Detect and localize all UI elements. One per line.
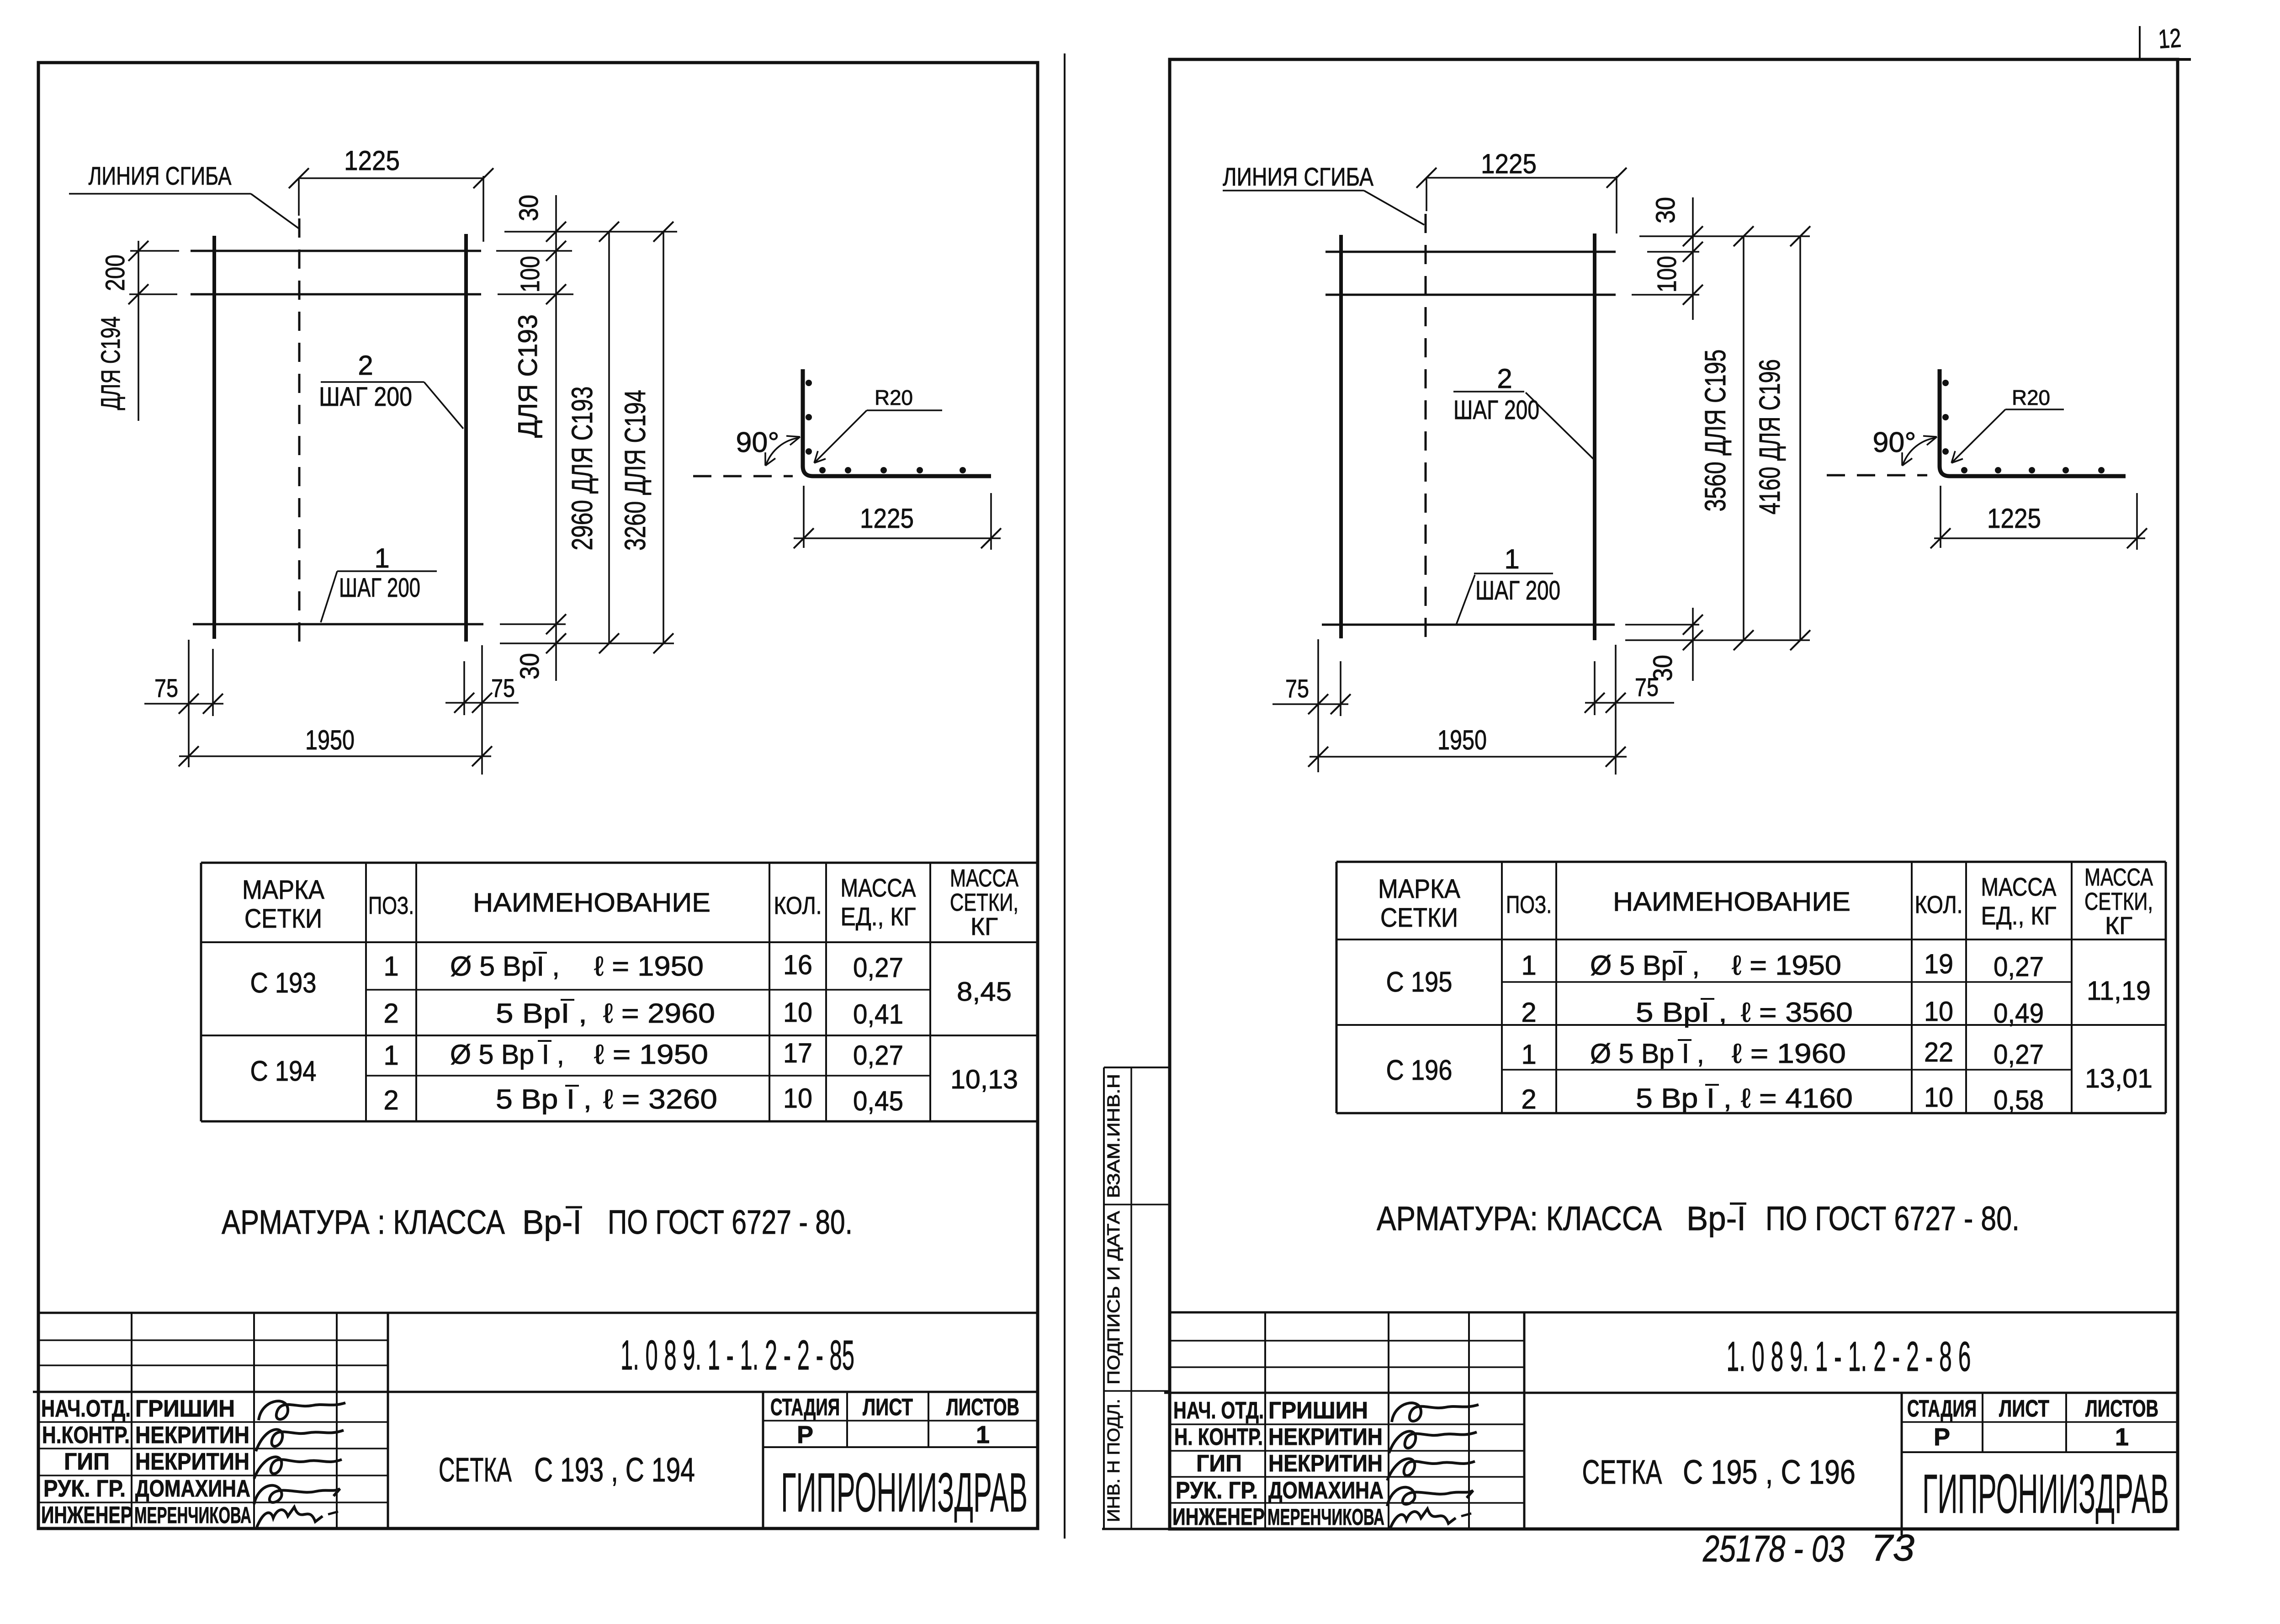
svg-text:30: 30 <box>1651 197 1681 223</box>
svg-text:90°: 90° <box>1873 427 1916 458</box>
svg-text:ℓ = 1950: ℓ = 1950 <box>1732 950 1841 981</box>
svg-text:2: 2 <box>383 1085 398 1115</box>
svg-text:СЕТКИ,: СЕТКИ, <box>950 889 1018 916</box>
svg-text:ℓ = 1950: ℓ = 1950 <box>594 1039 708 1070</box>
svg-text:ℓ = 3260: ℓ = 3260 <box>603 1084 717 1115</box>
svg-text:ЕД., КГ: ЕД., КГ <box>841 902 916 931</box>
mesh cross wire bottom <box>193 623 483 626</box>
title block (right sheet) <box>1170 1311 2178 1314</box>
svg-text:2: 2 <box>358 350 373 381</box>
svg-text:ПОЗ.: ПОЗ. <box>1506 891 1552 918</box>
svg-text:ℓ = 1950: ℓ = 1950 <box>594 951 704 982</box>
signature (Домахина) <box>254 1486 340 1504</box>
svg-text:1: 1 <box>374 543 389 573</box>
svg-text:Ø 5 ВрI ,: Ø 5 ВрI , <box>1590 950 1700 981</box>
svg-text:С 196: С 196 <box>1386 1055 1453 1086</box>
svg-text:75: 75 <box>1635 673 1659 701</box>
fold line (dashed) <box>298 218 301 642</box>
90 degree arc with arrows (right) <box>1903 438 1936 464</box>
svg-text:10: 10 <box>783 1083 812 1114</box>
svg-text:75: 75 <box>491 674 515 702</box>
svg-text:3560 ДЛЯ С195: 3560 ДЛЯ С195 <box>1699 350 1732 512</box>
mesh cross wire top 1 <box>191 250 481 252</box>
extension line mesh right edge (bottom) <box>481 645 483 775</box>
svg-text:17: 17 <box>783 1038 812 1068</box>
extension line mesh left edge (bottom) <box>188 640 190 767</box>
svg-text:10: 10 <box>1924 1082 1953 1113</box>
table frame (right sheet) <box>1336 861 2166 863</box>
mesh cross wire top 2 (right sheet) <box>1326 294 1616 296</box>
svg-text:5 ВрI ,: 5 ВрI , <box>1636 997 1727 1028</box>
svg-text:75: 75 <box>1285 674 1309 703</box>
svg-text:100: 100 <box>1652 256 1682 292</box>
extension line mesh top edge (right) <box>504 231 677 233</box>
svg-text:Вр-I: Вр-I <box>522 1203 582 1241</box>
svg-text:ИНВ. Н ПОДЛ.: ИНВ. Н ПОДЛ. <box>1104 1399 1124 1522</box>
svg-text:1950: 1950 <box>1437 725 1487 755</box>
svg-text:200: 200 <box>101 255 130 291</box>
svg-text:0,58: 0,58 <box>1994 1085 2044 1115</box>
sidebar box column <box>1103 1067 1105 1529</box>
svg-text:8,45: 8,45 <box>957 977 1012 1007</box>
svg-text:ЛИСТОВ: ЛИСТОВ <box>946 1394 1019 1421</box>
dimension 75 bottom left (right sheet) <box>1317 639 1319 772</box>
svg-text:ГИПРОНИИЗДРАВ: ГИПРОНИИЗДРАВ <box>1922 1463 2169 1525</box>
svg-text:90°: 90° <box>736 427 779 458</box>
svg-text:СЕТКИ: СЕТКИ <box>244 904 322 934</box>
cross-wire dots on horizontal leg <box>819 467 826 473</box>
svg-text:ПОЗ.: ПОЗ. <box>368 892 414 919</box>
svg-text:0,27: 0,27 <box>1994 951 2044 982</box>
svg-text:ЛИСТОВ: ЛИСТОВ <box>2085 1396 2158 1422</box>
svg-text:ПО ГОСТ 6727 - 80.: ПО ГОСТ 6727 - 80. <box>608 1203 853 1241</box>
svg-text:0,27: 0,27 <box>853 1040 903 1071</box>
svg-text:2: 2 <box>1521 997 1536 1028</box>
svg-text:Вр-I: Вр-I <box>1686 1199 1746 1237</box>
svg-text:1. 0 8 9. 1 - 1. 2 - 2 - 8 6: 1. 0 8 9. 1 - 1. 2 - 2 - 8 6 <box>1727 1333 1971 1380</box>
extension line wire1 (right) <box>496 250 572 252</box>
cross-wire dots horizontal leg (right) <box>1961 467 1967 473</box>
svg-text:ГРИШИН: ГРИШИН <box>1268 1397 1368 1424</box>
svg-text:12: 12 <box>2157 23 2182 54</box>
svg-text:ДЛЯ С194: ДЛЯ С194 <box>96 317 126 410</box>
svg-text:1: 1 <box>1521 1039 1536 1070</box>
dimension 75 (bottom right) <box>445 702 519 704</box>
svg-text:ДЛЯ С193: ДЛЯ С193 <box>513 314 543 438</box>
svg-text:1: 1 <box>2115 1423 2129 1451</box>
svg-text:0,27: 0,27 <box>853 952 903 983</box>
svg-text:0,27: 0,27 <box>1994 1039 2044 1070</box>
svg-text:ШАГ 200: ШАГ 200 <box>1453 395 1539 425</box>
svg-text:0,49: 0,49 <box>1994 998 2044 1029</box>
svg-text:НЕКРИТИН: НЕКРИТИН <box>135 1449 249 1475</box>
svg-text:100: 100 <box>515 256 545 292</box>
svg-text:ИНЖЕНЕР: ИНЖЕНЕР <box>41 1502 133 1528</box>
svg-text:3260 ДЛЯ С194: 3260 ДЛЯ С194 <box>619 390 652 551</box>
svg-text:1: 1 <box>1504 544 1519 574</box>
svg-text:Р: Р <box>797 1421 813 1449</box>
dimension line 3560 for C195 <box>1743 236 1744 640</box>
svg-text:5 ВрI ,: 5 ВрI , <box>496 998 587 1029</box>
svg-text:ШАГ 200: ШАГ 200 <box>339 573 420 603</box>
svg-text:ЕД., КГ: ЕД., КГ <box>1981 901 2057 930</box>
svg-text:ГИП: ГИП <box>1196 1450 1242 1477</box>
svg-text:R20: R20 <box>2012 386 2050 409</box>
signature (Некритин 1) <box>256 1429 344 1451</box>
extension wire2 (right sheet) <box>1632 294 1699 296</box>
svg-text:РУК. ГР.: РУК. ГР. <box>1176 1477 1258 1504</box>
svg-text:ПО ГОСТ 6727 - 80.: ПО ГОСТ 6727 - 80. <box>1766 1199 2020 1237</box>
svg-text:ШАГ 200: ШАГ 200 <box>319 382 412 412</box>
dimension line 30/100 (right) <box>555 195 557 681</box>
svg-text:5 Вр I ,: 5 Вр I , <box>496 1084 592 1115</box>
svg-text:СЕТКА: СЕТКА <box>439 1451 512 1489</box>
dimension 1225 (right detail) <box>1940 486 1941 548</box>
svg-text:4160 ДЛЯ С196: 4160 ДЛЯ С196 <box>1753 359 1786 515</box>
svg-text:2960 ДЛЯ С193: 2960 ДЛЯ С193 <box>566 387 599 551</box>
dimension line 3260 for C194 <box>663 232 664 643</box>
svg-text:0,45: 0,45 <box>853 1086 903 1116</box>
table frame (left sheet) <box>201 862 1038 864</box>
bent bar detail (right sheet) <box>1940 369 2126 476</box>
svg-text:Н.КОНТР.: Н.КОНТР. <box>42 1422 130 1449</box>
extension mesh top edge (right sheet) <box>1639 235 1810 237</box>
svg-text:НАИМЕНОВАНИЕ: НАИМЕНОВАНИЕ <box>1613 887 1851 917</box>
dimension line 30/100 (right sheet) <box>1692 197 1694 320</box>
mesh longitudinal bar pos.2 left (right sheet) <box>1339 235 1343 638</box>
svg-text:ДОМАХИНА: ДОМАХИНА <box>1268 1477 1384 1504</box>
right sheet frame <box>1170 59 2178 1529</box>
svg-text:СЕТКИ,: СЕТКИ, <box>2084 888 2153 915</box>
signature (Некритин 2) <box>1387 1459 1475 1481</box>
dashed axis line (right detail) <box>1827 474 1927 477</box>
label 'для С194' (left) <box>138 303 139 421</box>
svg-text:ℓ = 3560: ℓ = 3560 <box>1741 997 1853 1028</box>
svg-text:R20: R20 <box>875 386 913 409</box>
svg-text:22: 22 <box>1924 1037 1953 1067</box>
svg-text:СТАДИЯ: СТАДИЯ <box>770 1394 840 1421</box>
svg-text:АРМАТУРА: КЛАССА: АРМАТУРА: КЛАССА <box>1377 1199 1662 1237</box>
svg-text:1225: 1225 <box>1987 503 2041 534</box>
dimension 75 bottom right (right sheet) <box>1615 645 1617 775</box>
svg-text:АРМАТУРА : КЛАССА: АРМАТУРА : КЛАССА <box>222 1203 505 1241</box>
svg-text:ЛИНИЯ СГИБА: ЛИНИЯ СГИБА <box>89 161 232 190</box>
svg-text:ℓ = 4160: ℓ = 4160 <box>1741 1083 1853 1114</box>
mesh cross wire bottom (right sheet) <box>1322 624 1615 626</box>
mesh cross wire top 2 <box>191 293 481 296</box>
svg-text:30: 30 <box>515 653 545 679</box>
svg-text:13,01: 13,01 <box>2085 1064 2153 1093</box>
right sheet frame top overshoot <box>2178 58 2191 61</box>
fold line dashed (right sheet) <box>1425 214 1427 642</box>
svg-text:Р: Р <box>1934 1423 1950 1451</box>
extension line wire2 (right) <box>498 293 573 295</box>
svg-text:МЕРЕНЧИКОВА: МЕРЕНЧИКОВА <box>134 1502 251 1528</box>
extension wire1 (right sheet) <box>1647 251 1699 253</box>
svg-text:1. 0 8 9. 1 - 1. 2 - 2 - 85: 1. 0 8 9. 1 - 1. 2 - 2 - 85 <box>620 1332 854 1379</box>
svg-text:1225: 1225 <box>1481 149 1537 179</box>
svg-text:ГРИШИН: ГРИШИН <box>135 1396 235 1422</box>
svg-text:ЛИСТ: ЛИСТ <box>1999 1396 2049 1422</box>
signature (Меренчикова) <box>257 1507 323 1527</box>
dimension 200 (left) <box>130 250 179 252</box>
svg-text:КОЛ.: КОЛ. <box>774 892 822 919</box>
svg-text:ЛИСТ: ЛИСТ <box>863 1394 913 1421</box>
svg-text:Ø 5 Вр I ,: Ø 5 Вр I , <box>1590 1038 1704 1069</box>
dimension line 2960 for C193 <box>608 232 610 643</box>
svg-text:75: 75 <box>154 674 178 702</box>
svg-text:1950: 1950 <box>305 725 355 755</box>
svg-text:1: 1 <box>976 1421 990 1449</box>
svg-text:ЛИНИЯ СГИБА: ЛИНИЯ СГИБА <box>1223 162 1374 191</box>
svg-text:НАИМЕНОВАНИЕ: НАИМЕНОВАНИЕ <box>473 888 711 918</box>
signature (Некритин 2) <box>254 1457 342 1479</box>
svg-text:СТАДИЯ: СТАДИЯ <box>1907 1396 1977 1422</box>
svg-text:Ø 5 ВрI ,: Ø 5 ВрI , <box>450 951 560 982</box>
signature (Домахина) <box>1387 1487 1473 1506</box>
dimension line 4160 for C196 <box>1799 236 1801 640</box>
svg-text:ℓ = 1960: ℓ = 1960 <box>1732 1038 1846 1069</box>
svg-text:1: 1 <box>383 951 398 982</box>
svg-text:1: 1 <box>383 1040 398 1071</box>
svg-text:1225: 1225 <box>344 145 400 176</box>
cross-wire dots on vertical leg <box>806 380 812 386</box>
mesh longitudinal bar pos.2 right (right sheet) <box>1593 234 1596 640</box>
svg-text:МЕРЕНЧИКОВА: МЕРЕНЧИКОВА <box>1267 1504 1384 1530</box>
svg-text:Ø 5 Вр I ,: Ø 5 Вр I , <box>450 1039 564 1070</box>
svg-text:ПОДПИСЬ И ДАТА: ПОДПИСЬ И ДАТА <box>1104 1210 1124 1385</box>
svg-text:МАССА: МАССА <box>2084 864 2153 891</box>
svg-text:19: 19 <box>1924 949 1953 979</box>
svg-text:30: 30 <box>514 195 544 221</box>
title block (left sheet) <box>38 1312 1038 1314</box>
page separator line between scanned sheets <box>1064 53 1066 1539</box>
svg-text:С 193: С 193 <box>250 967 317 999</box>
svg-text:КГ: КГ <box>970 913 998 940</box>
svg-text:КГ: КГ <box>2105 912 2132 939</box>
signature (Гришин) <box>259 1401 345 1420</box>
page number tick <box>2139 26 2141 59</box>
svg-text:ШАГ 200: ШАГ 200 <box>1475 576 1560 605</box>
bent bar detail (left sheet) <box>803 369 991 476</box>
svg-text:10: 10 <box>783 997 812 1028</box>
dashed axis line left of bend <box>693 475 793 478</box>
svg-text:10: 10 <box>1924 996 1953 1027</box>
svg-text:МАССА: МАССА <box>1981 872 2057 901</box>
svg-text:2: 2 <box>1497 363 1512 394</box>
svg-text:2: 2 <box>1521 1084 1536 1115</box>
svg-text:ℓ = 2960: ℓ = 2960 <box>603 998 715 1029</box>
dimension 1225 (detail) <box>803 486 805 548</box>
svg-text:ИНЖЕНЕР: ИНЖЕНЕР <box>1172 1504 1265 1530</box>
svg-text:С 193 , С 194: С 193 , С 194 <box>534 1451 695 1489</box>
svg-text:10,13: 10,13 <box>950 1065 1018 1094</box>
signature (Меренчикова) <box>1390 1509 1456 1529</box>
svg-text:МАССА: МАССА <box>950 865 1018 892</box>
left sheet frame <box>38 63 1038 1528</box>
svg-text:КОЛ.: КОЛ. <box>1915 891 1963 918</box>
svg-text:С 195 , С 196: С 195 , С 196 <box>1683 1453 1856 1491</box>
svg-text:ВЗАМ.ИНВ.Н: ВЗАМ.ИНВ.Н <box>1104 1074 1124 1198</box>
svg-text:11,19: 11,19 <box>2087 976 2151 1006</box>
cross-wire dots vertical leg (right) <box>1942 380 1949 386</box>
dimension 1950 (bottom) <box>179 755 491 757</box>
svg-text:НАЧ. ОТД.: НАЧ. ОТД. <box>1173 1397 1264 1424</box>
svg-text:НЕКРИТИН: НЕКРИТИН <box>1268 1450 1383 1477</box>
extension line mesh bottom edge (right) <box>500 642 674 644</box>
svg-text:СЕТКА: СЕТКА <box>1582 1453 1662 1491</box>
dimension 75 (bottom left) <box>144 703 223 705</box>
svg-text:2: 2 <box>383 998 398 1029</box>
90 degree arc with arrows <box>766 438 799 464</box>
signature (Некритин 1) <box>1389 1431 1477 1453</box>
svg-text:С 194: С 194 <box>250 1056 317 1087</box>
svg-text:73: 73 <box>1871 1527 1914 1569</box>
svg-text:МАРКА: МАРКА <box>242 875 324 905</box>
svg-text:25178 - 03: 25178 - 03 <box>1702 1528 1845 1570</box>
svg-text:0,41: 0,41 <box>853 999 903 1030</box>
extension line wire3 (right) <box>500 623 566 625</box>
mesh longitudinal bar pos.2 left <box>212 236 216 639</box>
leader line for 'Линия сгиба' <box>69 193 251 195</box>
svg-text:1225: 1225 <box>860 503 914 534</box>
dimension 1950 bottom (right sheet) <box>1310 756 1627 758</box>
mesh cross wire top 1 (right sheet) <box>1326 251 1616 253</box>
svg-text:ГИПРОНИИЗДРАВ: ГИПРОНИИЗДРАВ <box>781 1461 1028 1523</box>
extension line bar2 (bottom) <box>463 661 465 715</box>
svg-text:1: 1 <box>1521 950 1536 981</box>
mesh longitudinal bar pos.2 right <box>464 234 468 642</box>
svg-text:НЕКРИТИН: НЕКРИТИН <box>135 1422 249 1449</box>
svg-text:СЕТКИ: СЕТКИ <box>1380 903 1458 933</box>
extension line bar1 (bottom) <box>212 649 214 716</box>
svg-text:РУК. ГР.: РУК. ГР. <box>43 1475 126 1502</box>
svg-text:МАССА: МАССА <box>841 873 917 902</box>
svg-text:МАРКА: МАРКА <box>1378 874 1460 904</box>
svg-text:5 Вр I ,: 5 Вр I , <box>1636 1083 1732 1114</box>
svg-text:НЕКРИТИН: НЕКРИТИН <box>1268 1424 1383 1450</box>
svg-text:Н. КОНТР.: Н. КОНТР. <box>1174 1424 1263 1450</box>
svg-text:НАЧ.ОТД.: НАЧ.ОТД. <box>41 1396 131 1422</box>
signature (Гришин) <box>1392 1403 1479 1422</box>
extension mesh bottom edge dims (right sheet) <box>1625 639 1810 641</box>
svg-text:С 195: С 195 <box>1386 966 1453 998</box>
svg-text:16: 16 <box>783 950 812 980</box>
svg-text:ДОМАХИНА: ДОМАХИНА <box>135 1475 250 1502</box>
svg-text:ГИП: ГИП <box>64 1449 110 1475</box>
